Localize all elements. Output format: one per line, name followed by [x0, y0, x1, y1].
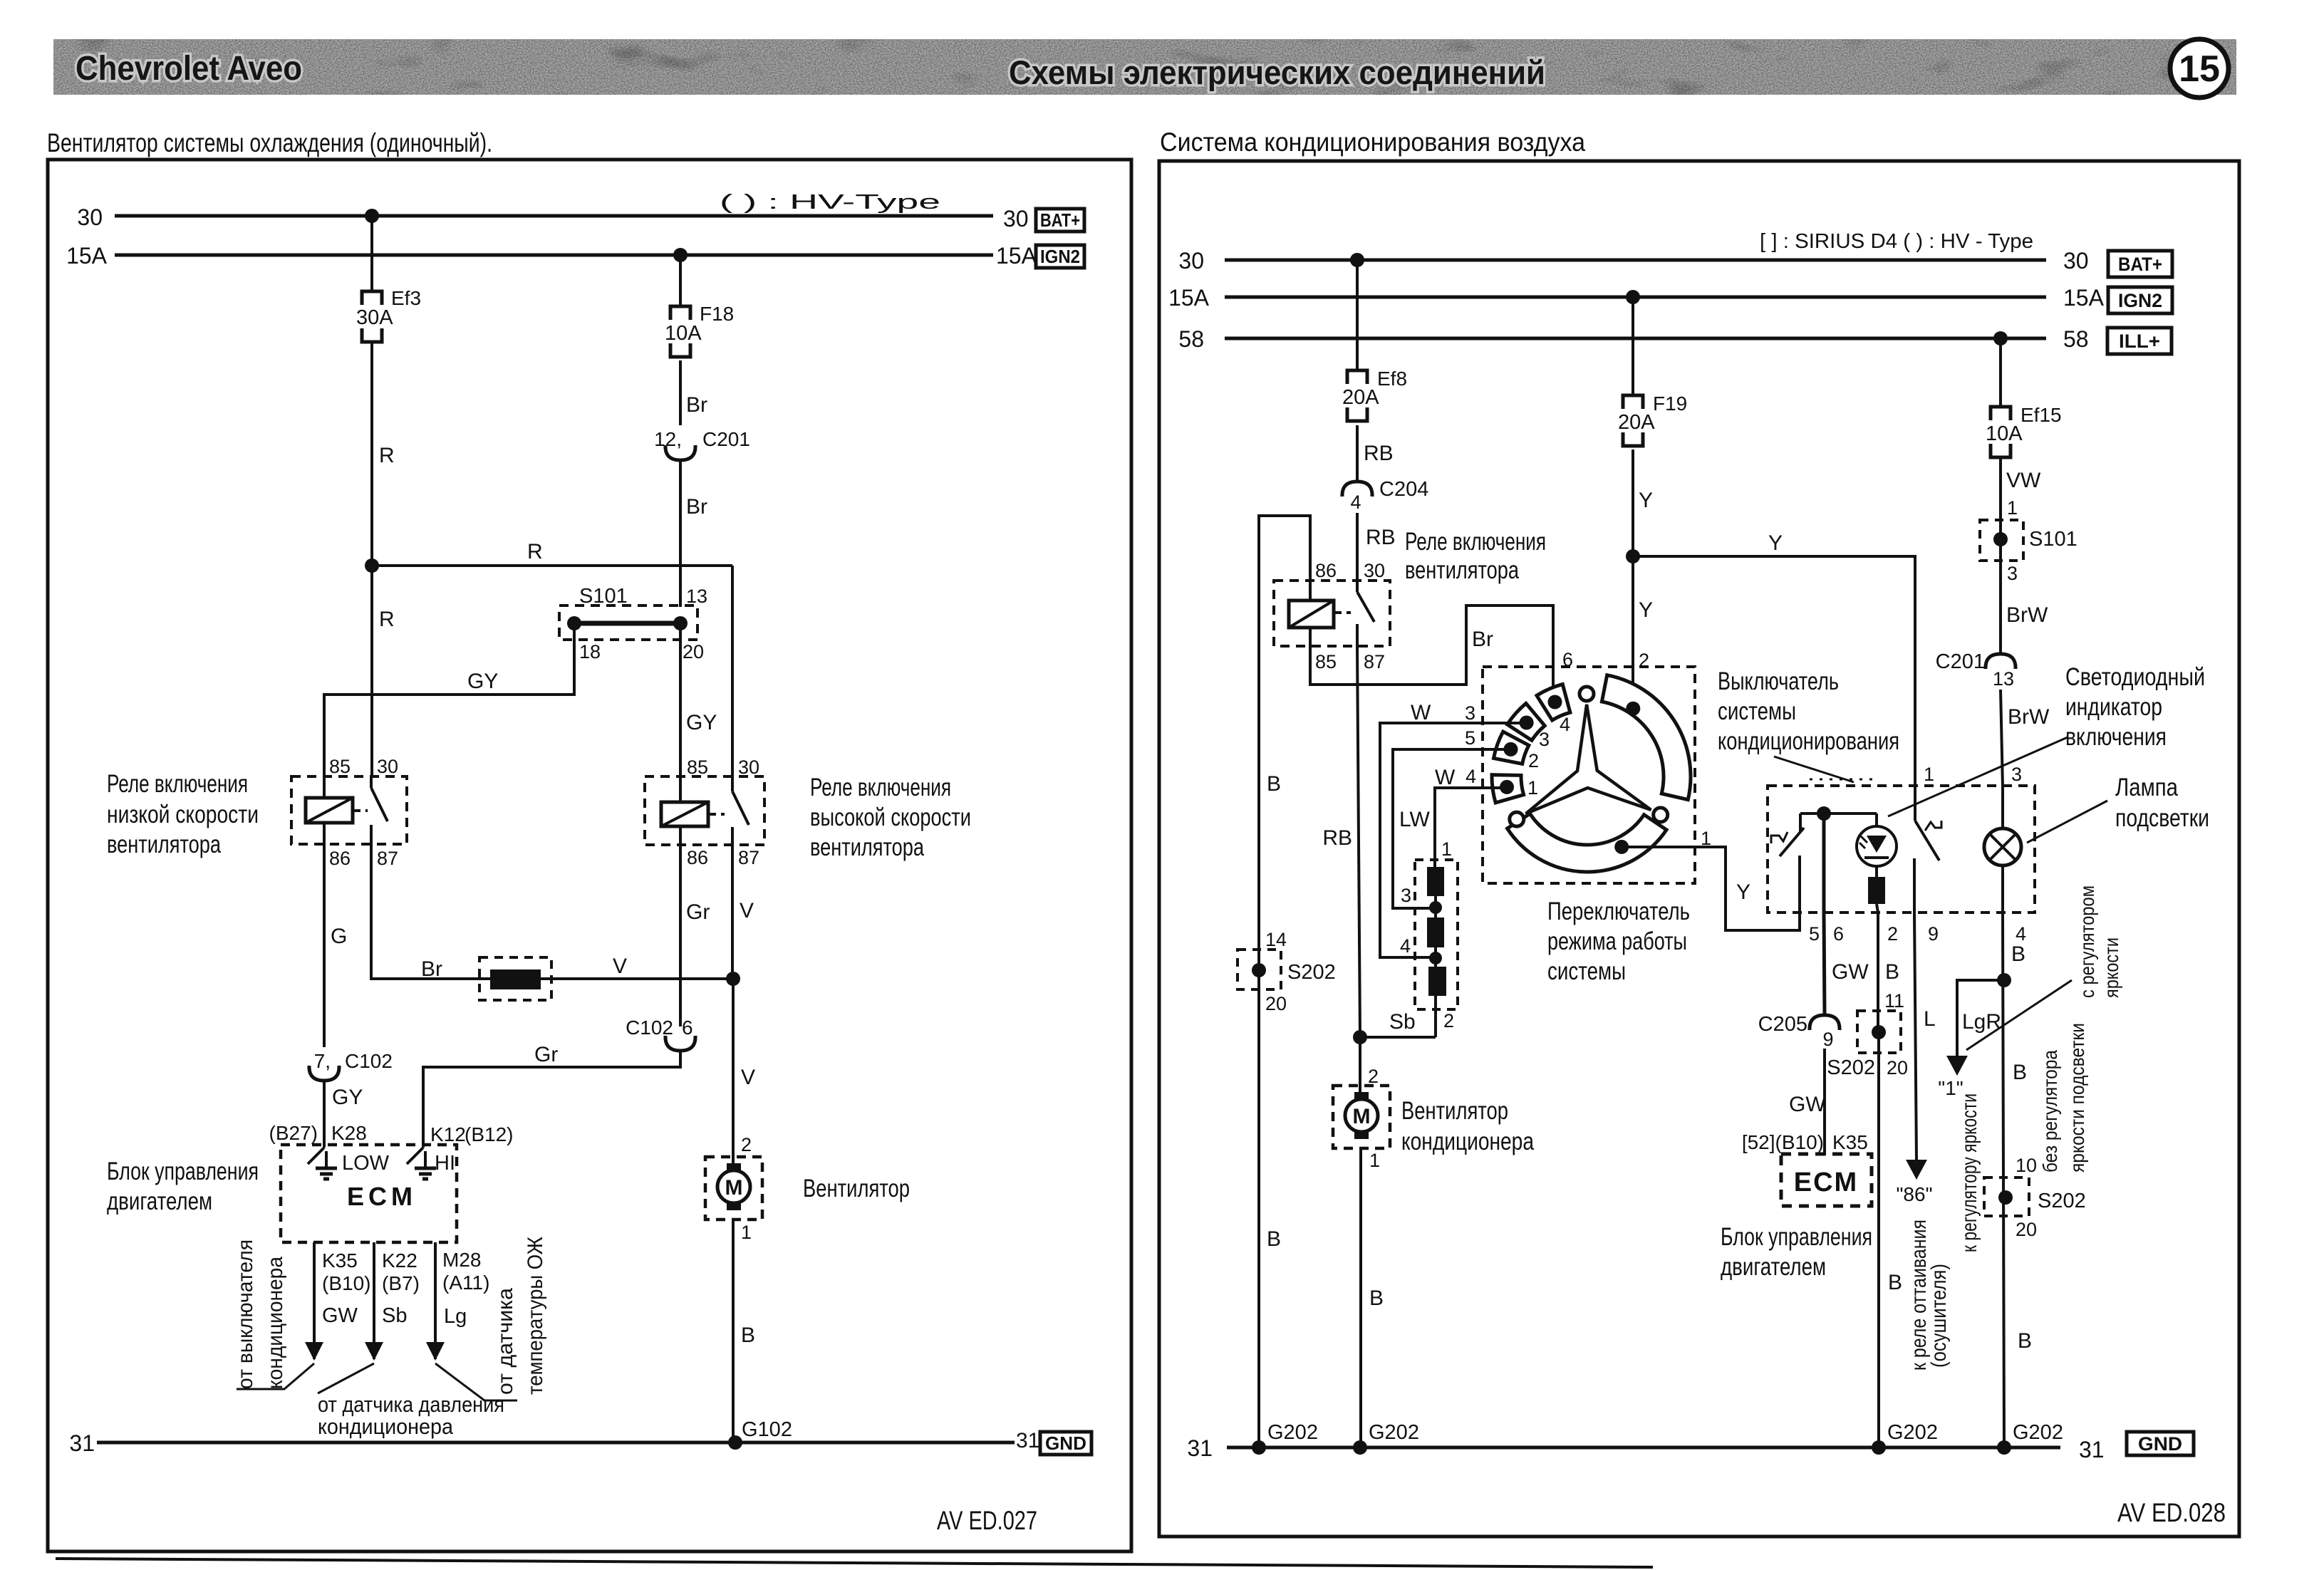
- pointer K35 caption: [237, 1363, 314, 1389]
- svg-text:11: 11: [1884, 990, 1904, 1012]
- svg-text:GY: GY: [686, 711, 717, 734]
- wire AC switch pin6 GW: [1822, 813, 1826, 913]
- wire AC switch pin5: [1798, 856, 1801, 913]
- svg-text:2: 2: [1368, 1066, 1379, 1087]
- svg-text:B: B: [741, 1324, 755, 1347]
- svg-text:RB: RB: [1364, 442, 1394, 465]
- svg-text:от датчика: от датчика: [494, 1288, 517, 1395]
- svg-text:4: 4: [1466, 766, 1476, 787]
- svg-text:Br: Br: [686, 495, 707, 519]
- wire bus30 to fuse Ef3: [370, 216, 373, 291]
- svg-text:включения: включения: [2065, 723, 2167, 751]
- connector C205 pin9: [1758, 1013, 1840, 1050]
- node S202 right dot: [1998, 1190, 2013, 1205]
- svg-text:6: 6: [1562, 649, 1573, 670]
- svg-text:Chevrolet Aveo: Chevrolet Aveo: [76, 50, 302, 88]
- relay K3 pin85 wire: [1309, 628, 1312, 646]
- svg-text:Система кондиционирования возд: Система кондиционирования воздуха: [1160, 128, 1585, 157]
- splice S101 right box: [1980, 520, 2023, 561]
- svg-text:18: 18: [579, 641, 601, 662]
- relay K2 box: [645, 776, 764, 845]
- svg-text:L: L: [1924, 1007, 1936, 1031]
- svg-text:86: 86: [687, 847, 708, 868]
- svg-text:10A: 10A: [665, 322, 702, 345]
- svg-text:Gr: Gr: [686, 900, 710, 924]
- wire chain bottom to Sb: [1434, 996, 1437, 1037]
- node bus58-Ef15 junction: [1993, 331, 2008, 345]
- svg-text:4: 4: [1560, 714, 1570, 735]
- LED indicator: [1857, 813, 1897, 866]
- svg-text:Ef15: Ef15: [2020, 404, 2062, 426]
- svg-text:V: V: [741, 1066, 755, 1089]
- AC switch right contact hook: [1925, 821, 1941, 831]
- svg-text:системы: системы: [1718, 697, 1796, 725]
- svg-text:IGN2: IGN2: [1040, 246, 1080, 267]
- svg-text:от датчика давления: от датчика давления: [318, 1392, 504, 1417]
- AC switch left contact: [1799, 813, 1802, 831]
- svg-text:30: 30: [1178, 248, 1204, 274]
- svg-text:Блок управления: Блок управления: [107, 1158, 259, 1185]
- wire B lamp pin4 down: [2003, 913, 2004, 1447]
- arrow M28: [426, 1342, 445, 1361]
- svg-text:C201: C201: [1936, 650, 1985, 673]
- svg-text:кондиционирования: кондиционирования: [1718, 727, 1899, 755]
- svg-text:B: B: [1369, 1286, 1384, 1310]
- wire V relay K2 pin87 down: [731, 845, 734, 979]
- svg-text:10: 10: [2016, 1155, 2037, 1176]
- svg-text:R: R: [379, 608, 395, 631]
- svg-text:высокой скорости: высокой скорости: [810, 804, 971, 831]
- svg-text:"86": "86": [1896, 1183, 1932, 1205]
- svg-text:RB: RB: [1366, 526, 1396, 549]
- wire RB Ef8 to C204: [1356, 425, 1359, 483]
- node bus15A-F19 junction: [1626, 290, 1640, 304]
- svg-text:GW: GW: [1789, 1093, 1826, 1116]
- svg-text:3: 3: [2011, 764, 2022, 785]
- svg-text:GND: GND: [1045, 1433, 1086, 1454]
- splice S101 link: [574, 621, 680, 626]
- svg-text:Ef3: Ef3: [391, 287, 421, 309]
- bus 15A wire: [115, 254, 993, 257]
- svg-text:86: 86: [1315, 560, 1337, 581]
- wire Y junction to rotary pad2: [1632, 556, 1634, 709]
- tag IGN2 right: [2108, 287, 2172, 313]
- svg-text:7,: 7,: [314, 1050, 331, 1072]
- splice S101 box: [559, 605, 697, 640]
- svg-text:2: 2: [1887, 923, 1898, 945]
- node bus30-Ef3 junction: [365, 209, 379, 223]
- svg-text:C102: C102: [345, 1050, 393, 1072]
- svg-text:4: 4: [1400, 935, 1411, 957]
- wire Y junction to AC switch pin1: [1633, 556, 1915, 787]
- svg-text:S101: S101: [579, 585, 628, 608]
- ECM box right: [1781, 1154, 1872, 1206]
- wire AC switch pin2: [1877, 904, 1878, 913]
- wire LED to resistor: [1875, 866, 1878, 877]
- svg-text:15A: 15A: [1168, 285, 1210, 311]
- svg-text:температуры ОЖ: температуры ОЖ: [524, 1237, 547, 1395]
- svg-text:BAT+: BAT+: [1040, 209, 1080, 231]
- svg-text:G102: G102: [742, 1418, 792, 1441]
- svg-text:B: B: [2018, 1329, 2032, 1353]
- svg-text:системы: системы: [1547, 957, 1626, 985]
- wire chain R2-R3: [1434, 947, 1437, 967]
- svg-text:31: 31: [69, 1430, 95, 1456]
- node S101 pin13 dot: [673, 616, 688, 630]
- node G202 left B: [1252, 1440, 1266, 1455]
- ECM K28 ground: [325, 1151, 328, 1168]
- svg-text:G202: G202: [2013, 1421, 2063, 1444]
- svg-text:K12: K12: [430, 1123, 466, 1145]
- svg-text:Вентилятор: Вентилятор: [803, 1175, 910, 1202]
- wire VW Ef15 to S101: [1999, 459, 2002, 540]
- wire S101-20 to relay K2 pin85: [679, 623, 682, 778]
- blower resistor R1: [1427, 867, 1444, 896]
- ECM K12 ground: [424, 1151, 427, 1168]
- svg-text:кондиционера: кондиционера: [1401, 1128, 1534, 1155]
- svg-text:Sb: Sb: [382, 1304, 407, 1327]
- svg-text:B: B: [1888, 1271, 1902, 1294]
- svg-text:Блок управления: Блок управления: [1721, 1223, 1872, 1251]
- svg-text:(A11): (A11): [442, 1272, 489, 1294]
- svg-text:Реле включения: Реле включения: [107, 770, 248, 798]
- tag BAT+: [1036, 209, 1084, 232]
- svg-text:10A: 10A: [1986, 422, 2023, 445]
- svg-text:C205: C205: [1758, 1013, 1807, 1036]
- svg-text:GY: GY: [467, 670, 498, 693]
- svg-text:G202: G202: [1267, 1421, 1318, 1444]
- wire chain R1-R2: [1434, 896, 1437, 917]
- svg-text:M28: M28: [442, 1249, 481, 1271]
- mode switch output arc bottom: [1508, 813, 1667, 872]
- fuse Ef15 10A: [1986, 404, 2062, 457]
- svg-text:3: 3: [2007, 563, 2018, 584]
- svg-text:яркости подсветки: яркости подсветки: [2066, 1023, 2088, 1173]
- relay K1 pin30 wire and contact: [370, 776, 373, 788]
- svg-text:1: 1: [741, 1222, 752, 1243]
- svg-text:Y: Y: [1736, 880, 1750, 904]
- splice S202 right box: [1984, 1177, 2029, 1216]
- svg-text:вентилятора: вентилятора: [107, 831, 221, 858]
- svg-text:15A: 15A: [66, 243, 108, 269]
- svg-text:низкой скорости: низкой скорости: [107, 801, 259, 828]
- LED series resistor: [1868, 877, 1885, 904]
- svg-text:IGN2: IGN2: [2118, 290, 2162, 311]
- fuse Ef8 20A: [1342, 368, 1407, 421]
- relay K3 box: [1274, 581, 1390, 646]
- svg-text:K35: K35: [322, 1249, 358, 1272]
- svg-text:85: 85: [329, 756, 351, 777]
- svg-text:2: 2: [1443, 1010, 1454, 1031]
- node tap4: [1429, 952, 1442, 965]
- svg-text:20A: 20A: [1618, 411, 1655, 434]
- svg-text:GND: GND: [2138, 1433, 2182, 1455]
- svg-text:Br: Br: [1472, 628, 1493, 651]
- svg-text:6: 6: [1833, 923, 1844, 945]
- node S101 pin18 dot: [567, 616, 581, 630]
- svg-text:B: B: [1267, 1227, 1281, 1251]
- wire R node to relay K1 pin30: [370, 566, 373, 778]
- svg-text:кондиционера: кондиционера: [264, 1257, 287, 1389]
- relay K2 pin85 wire: [679, 778, 682, 802]
- wire R horizontal: [372, 564, 732, 567]
- svg-text:[52](B10): [52](B10): [1742, 1131, 1824, 1153]
- svg-text:1: 1: [1369, 1150, 1380, 1171]
- svg-text:5: 5: [1465, 727, 1475, 749]
- AC switch box: [1768, 786, 2035, 913]
- wire GY S101-18 to relay K1 pin85: [324, 623, 574, 778]
- relay K1 box: [291, 776, 407, 844]
- svg-text:BrW: BrW: [2008, 705, 2050, 729]
- svg-text:(B7): (B7): [382, 1272, 420, 1294]
- wire GW C205 to ECM: [1823, 1049, 1826, 1155]
- svg-text:4: 4: [1350, 492, 1361, 513]
- svg-text:GY: GY: [332, 1086, 363, 1109]
- ECM box: [281, 1145, 457, 1242]
- svg-text:1: 1: [2007, 497, 2018, 519]
- wire Gr C102-6 to ECM K12: [423, 1051, 680, 1148]
- wire RB relay87 to node: [1357, 646, 1360, 1037]
- node G102: [728, 1435, 742, 1450]
- wire GW pin6 to C205: [1824, 913, 1825, 1015]
- svg-text:30: 30: [377, 756, 398, 777]
- svg-text:LOW: LOW: [342, 1152, 390, 1175]
- svg-text:подсветки: подсветки: [2115, 804, 2209, 832]
- svg-text:30: 30: [77, 204, 103, 230]
- AC switch left contact hook: [1771, 832, 1788, 843]
- wire Br F18 to C201: [679, 360, 682, 425]
- tag GND left: [1040, 1432, 1091, 1455]
- wire bus15A to fuse F19: [1632, 297, 1634, 395]
- svg-text:Y: Y: [1639, 489, 1653, 512]
- wire Gr relay K2 pin86 down: [679, 845, 682, 1026]
- svg-text:с регулятором: с регулятором: [2076, 885, 2098, 998]
- tag GND right: [2127, 1432, 2194, 1455]
- svg-text:9: 9: [1928, 923, 1939, 945]
- arrow LgR to dimmer: [1946, 1056, 1968, 1076]
- svg-text:ILL+: ILL+: [2119, 331, 2160, 352]
- splice S202 left box: [1238, 950, 1281, 989]
- svg-text:( ) : HV-Type: ( ) : HV-Type: [720, 191, 940, 214]
- wire B pin2 to S202: [1877, 913, 1879, 1033]
- svg-text:14: 14: [1265, 929, 1287, 950]
- wire GY C102 to ECM K28: [323, 1081, 326, 1148]
- svg-text:Br: Br: [686, 393, 707, 417]
- node R junction: [365, 558, 379, 573]
- svg-text:S101: S101: [2029, 528, 2077, 551]
- arrow K22: [365, 1342, 383, 1361]
- svg-text:86: 86: [329, 848, 351, 869]
- splice S202 mid box: [1857, 1011, 1901, 1053]
- mode switch feed arc right: [1602, 675, 1691, 800]
- svg-text:12,: 12,: [654, 428, 682, 450]
- svg-text:87: 87: [377, 848, 398, 869]
- svg-text:1: 1: [1701, 828, 1711, 849]
- resistor fan dropping: [479, 957, 551, 1000]
- node G202 ecm B: [1872, 1440, 1886, 1455]
- wire LgR branch: [1957, 980, 2004, 1056]
- blower resistor box: [1415, 860, 1458, 1009]
- svg-text:31: 31: [1187, 1435, 1213, 1461]
- arrow L to defogger relay: [1906, 1160, 1927, 1180]
- svg-text:F19: F19: [1653, 392, 1687, 415]
- wire AC motor pin1 to G202: [1359, 1148, 1362, 1447]
- svg-text:Светодиодный: Светодиодный: [2065, 663, 2205, 691]
- svg-text:31: 31: [2079, 1437, 2105, 1462]
- svg-text:RB: RB: [1322, 826, 1352, 850]
- svg-text:R: R: [527, 540, 543, 563]
- wire R down to relay K2 pin30: [731, 566, 734, 778]
- wire M28 output: [434, 1242, 437, 1359]
- svg-text:30: 30: [1003, 206, 1029, 232]
- svg-text:C201: C201: [702, 428, 750, 450]
- svg-text:Gr: Gr: [534, 1043, 558, 1066]
- node tap3: [1429, 901, 1442, 914]
- relay K3 coil: [1289, 601, 1334, 628]
- wire K35 output: [313, 1242, 316, 1359]
- wire motor pin1 to bus31: [732, 1220, 735, 1442]
- svg-text:вентилятора: вентилятора: [1405, 556, 1519, 584]
- svg-text:(B12): (B12): [465, 1123, 513, 1145]
- relay K3 coil-contact dashed link: [1335, 611, 1351, 614]
- svg-text:6: 6: [682, 1017, 693, 1039]
- header bar: [53, 39, 2236, 95]
- pointer Выключатель to box: [1774, 757, 1854, 782]
- svg-text:Переключатель: Переключатель: [1547, 898, 1690, 925]
- svg-text:K22: K22: [382, 1249, 417, 1272]
- svg-text:от выключателя: от выключателя: [234, 1239, 257, 1389]
- svg-text:15A: 15A: [2063, 285, 2105, 311]
- wire Y F19 to junction: [1632, 449, 1634, 556]
- svg-text:Вентилятор системы охлаждения: Вентилятор системы охлаждения (одиночный…: [47, 128, 492, 157]
- svg-text:[ ] : SIRIUS D4 ( ) : HV -: [ ] : SIRIUS D4 ( ) : HV - Type: [1760, 230, 2033, 253]
- svg-text:M: M: [1353, 1105, 1371, 1128]
- svg-text:ECM: ECM: [1794, 1168, 1858, 1197]
- relay K2 coil-contact dashed link: [710, 813, 725, 816]
- svg-text:3: 3: [1539, 729, 1550, 750]
- node G202 lamp B: [1997, 1440, 2011, 1455]
- svg-text:S202: S202: [1287, 961, 1336, 984]
- fuse F18 10A: [665, 303, 734, 357]
- svg-text:(осушителя): (осушителя): [1927, 1264, 1951, 1368]
- wire L pin9 down: [1914, 913, 1916, 1160]
- wire RB C204 to relay pin30: [1356, 513, 1359, 582]
- node Y junction: [1626, 549, 1640, 563]
- svg-text:C102: C102: [626, 1017, 673, 1039]
- svg-text:Y: Y: [1639, 598, 1653, 622]
- blower resistor R3: [1428, 967, 1446, 996]
- wire W pad1 to chain top: [1435, 788, 1509, 868]
- svg-text:Лампа: Лампа: [2115, 774, 2178, 801]
- fuse Ef3 30A: [356, 287, 421, 342]
- svg-text:кондиционера: кондиционера: [318, 1414, 454, 1439]
- svg-text:30: 30: [738, 757, 759, 778]
- wire bus30 to fuse Ef8: [1356, 260, 1359, 370]
- wire node to AC motor: [1359, 1037, 1361, 1092]
- relay K3 pin30 wire and contact: [1356, 582, 1359, 592]
- svg-text:M: M: [725, 1176, 743, 1200]
- relay K1 pin86 wire: [323, 823, 326, 844]
- mode switch rotor blades: [1510, 687, 1668, 826]
- tag IGN2: [1036, 245, 1084, 268]
- svg-text:без регулятора: без регулятора: [2039, 1050, 2061, 1173]
- svg-text:V: V: [613, 955, 627, 978]
- pointer M28 caption: [435, 1363, 517, 1400]
- svg-text:Схемы электрических соединений: Схемы электрических соединений: [1009, 53, 1545, 91]
- left diagram border: [48, 160, 1131, 1551]
- svg-text:87: 87: [738, 847, 759, 868]
- wire Br relay85 to switch pad6: [1310, 605, 1553, 701]
- svg-text:20A: 20A: [1342, 386, 1379, 409]
- svg-text:(B27): (B27): [269, 1122, 318, 1144]
- wire BrW C201 to AC switch pin3: [2001, 690, 2003, 787]
- svg-text:яркости: яркости: [2100, 937, 2122, 998]
- wire AC switch pin9 stub: [1913, 858, 1916, 913]
- relay K2 coil: [661, 802, 708, 826]
- mode switch box: [1483, 667, 1695, 883]
- svg-text:2: 2: [741, 1134, 752, 1155]
- svg-text:C204: C204: [1379, 478, 1428, 501]
- svg-text:B: B: [1267, 772, 1281, 796]
- svg-text:BrW: BrW: [2006, 603, 2048, 627]
- node AC switch junction: [1817, 806, 1831, 821]
- pointer LED caption: [1888, 737, 2068, 816]
- bus 15A wire right: [1225, 296, 2046, 299]
- svg-text:ECM: ECM: [347, 1182, 417, 1211]
- bus 31 wire right: [1227, 1446, 2060, 1450]
- svg-text:LW: LW: [1399, 808, 1430, 831]
- svg-text:S202: S202: [2038, 1190, 2086, 1212]
- wire V node to motor: [732, 979, 735, 1163]
- node Sb junction: [1353, 1030, 1367, 1044]
- mode switch contact pads 4-3-2-1: [1492, 685, 1570, 803]
- svg-text:вентилятора: вентилятора: [810, 833, 924, 861]
- svg-text:Sb: Sb: [1389, 1010, 1416, 1034]
- svg-text:двигателем: двигателем: [1721, 1253, 1826, 1281]
- svg-text:HI: HI: [435, 1152, 455, 1175]
- pointer с регулятором: [1966, 980, 2072, 1050]
- svg-text:Y: Y: [1768, 531, 1783, 555]
- svg-text:VW: VW: [2006, 469, 2041, 492]
- svg-text:F18: F18: [700, 303, 734, 325]
- svg-text:V: V: [740, 899, 754, 922]
- connector C204 pin4: [1342, 478, 1428, 513]
- tag ILL+: [2107, 328, 2172, 354]
- wire bus15A to fuse F18: [679, 255, 682, 306]
- motor AC fan M: [1333, 1086, 1390, 1148]
- svg-text:13: 13: [686, 586, 707, 607]
- svg-text:58: 58: [2063, 326, 2089, 352]
- svg-text:режима работы: режима работы: [1547, 927, 1687, 955]
- svg-text:15A: 15A: [996, 243, 1037, 269]
- AC switch right contact: [1914, 787, 1916, 821]
- svg-text:5: 5: [1809, 923, 1820, 945]
- relay K1 pin85 wire: [323, 776, 326, 798]
- wire B S202 to G202: [1877, 1032, 1880, 1447]
- relay K1 coil: [306, 798, 353, 823]
- svg-text:Br: Br: [421, 957, 442, 981]
- ECM K28 switch blade: [308, 1148, 324, 1164]
- svg-text:AV ED.028: AV ED.028: [2117, 1498, 2226, 1527]
- wire R Ef3 to node: [370, 343, 373, 566]
- svg-text:85: 85: [1315, 651, 1337, 672]
- svg-text:30: 30: [1364, 560, 1385, 581]
- node G202 motor: [1353, 1440, 1367, 1455]
- right diagram border: [1159, 161, 2239, 1537]
- svg-text:Реле включения: Реле включения: [810, 774, 951, 801]
- svg-text:20: 20: [2016, 1219, 2037, 1240]
- bus 31 wire: [97, 1441, 1015, 1445]
